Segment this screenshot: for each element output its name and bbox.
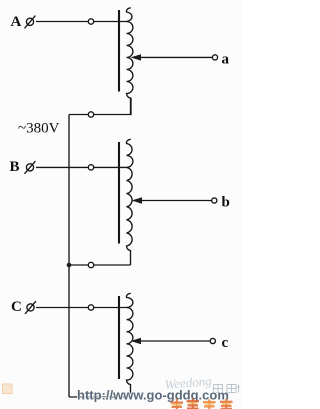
wiper arrow of T3 (output c tap) — [131, 338, 211, 344]
svg-text:A: A — [11, 14, 22, 30]
terminal a (output circle) — [212, 55, 217, 60]
svg-text:C: C — [11, 299, 22, 315]
junction (neutral bus / T2 wire) — [67, 263, 72, 268]
transformer T3 winding — [126, 293, 132, 397]
terminal (connector on T1 neutral wire) — [88, 112, 93, 117]
wire (neutral bus vertical) — [68, 115, 70, 398]
fuse FU1 (phase A fuse symbol) — [25, 16, 36, 29]
wire (phase B to T2 winding tap) — [36, 166, 128, 168]
terminal c (output circle) — [210, 338, 215, 343]
transformer T1 core — [118, 10, 120, 92]
fuse FU2 (phase B fuse symbol) — [25, 161, 36, 174]
terminal (connector on T2 neutral wire) — [88, 262, 93, 267]
svg-text:~380V: ~380V — [18, 121, 60, 137]
watermark CJK glyphs (light gray) — [214, 385, 241, 393]
terminal (connector on phase A wire) — [88, 19, 93, 24]
terminal (connector on phase C wire) — [88, 305, 93, 310]
svg-text:a: a — [222, 52, 230, 68]
terminal b (output circle) — [212, 198, 217, 203]
wiper arrow of T1 (output a tap) — [131, 54, 213, 60]
watermark orange CJK character tops (bottom edge, cut off) — [171, 399, 233, 409]
wiper arrow of T2 (output b tap) — [132, 197, 212, 203]
wire (T2 winding bottom to neutral bus) — [69, 264, 131, 266]
transformer T2 core — [118, 142, 120, 244]
svg-text:c: c — [222, 335, 229, 351]
fuse FU3 (phase C fuse symbol) — [25, 301, 36, 314]
watermark faint orange square (bottom left) — [3, 384, 13, 394]
transformer T2 winding — [126, 139, 132, 265]
transformer T1 winding — [126, 8, 132, 115]
wire (T1 winding bottom to neutral bus) — [69, 98, 131, 115]
svg-text:http://www.go-gddq.com: http://www.go-gddq.com — [77, 388, 229, 403]
svg-text:b: b — [222, 195, 230, 211]
terminal (connector on phase B wire) — [88, 165, 93, 170]
wire (phase A to T1 winding tap) — [36, 21, 128, 23]
transformer T3 core — [118, 296, 120, 379]
wire (phase C to T3 winding tap) — [36, 307, 128, 309]
wire (T3 winding bottom to neutral bus) — [69, 396, 131, 398]
svg-text:B: B — [10, 159, 20, 175]
